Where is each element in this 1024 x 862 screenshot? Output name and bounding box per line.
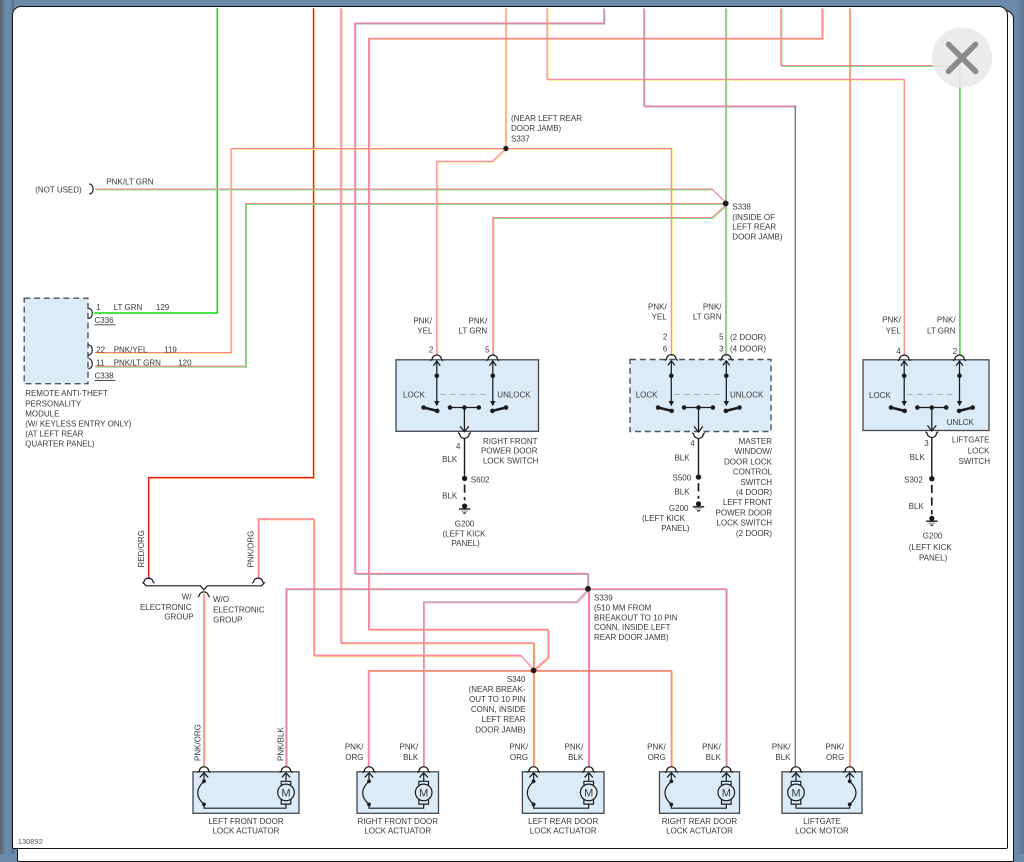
svg-text:BLK: BLK — [706, 753, 722, 762]
svg-text:PNK/BLK: PNK/BLK — [277, 727, 286, 761]
svg-text:C336: C336 — [95, 316, 115, 325]
svg-text:22: 22 — [96, 345, 105, 354]
svg-text:M: M — [281, 787, 290, 799]
svg-text:(2 DOOR): (2 DOOR) — [736, 529, 772, 538]
svg-text:PNK/: PNK/ — [469, 316, 488, 325]
svg-text:LT GRN: LT GRN — [693, 312, 722, 321]
svg-text:PANEL): PANEL) — [451, 539, 480, 548]
svg-text:PNK/YEL: PNK/YEL — [114, 345, 148, 354]
svg-text:REAR DOOR JAMB): REAR DOOR JAMB) — [594, 633, 669, 642]
svg-text:BLK: BLK — [910, 453, 926, 462]
svg-text:6: 6 — [663, 345, 668, 354]
svg-text:POWER DOOR: POWER DOOR — [716, 508, 773, 517]
svg-text:PNK/: PNK/ — [509, 743, 528, 752]
svg-text:S339: S339 — [594, 594, 613, 603]
svg-text:UNLOCK: UNLOCK — [730, 391, 764, 400]
svg-text:4: 4 — [690, 439, 695, 448]
svg-text:BLK: BLK — [442, 455, 458, 464]
svg-text:S340: S340 — [507, 675, 526, 684]
svg-text:PNK/: PNK/ — [565, 743, 584, 752]
svg-text:PNK/: PNK/ — [647, 743, 666, 752]
svg-text:PNK/LT GRN: PNK/LT GRN — [114, 359, 161, 368]
svg-text:PNK/: PNK/ — [400, 743, 419, 752]
svg-text:RIGHT FRONT: RIGHT FRONT — [483, 437, 538, 446]
svg-text:PANEL): PANEL) — [919, 554, 948, 563]
svg-text:ORG: ORG — [648, 753, 666, 762]
svg-text:ORG: ORG — [510, 753, 528, 762]
svg-text:LOCK SWITCH: LOCK SWITCH — [483, 457, 539, 466]
svg-text:BLK: BLK — [403, 753, 419, 762]
svg-text:G200: G200 — [923, 532, 943, 541]
svg-text:PNK/: PNK/ — [826, 743, 845, 752]
svg-text:PANEL): PANEL) — [661, 524, 690, 533]
svg-text:BLK: BLK — [909, 502, 925, 511]
svg-text:M: M — [584, 787, 593, 799]
svg-text:LOCK ACTUATOR: LOCK ACTUATOR — [530, 827, 597, 836]
svg-text:2: 2 — [953, 347, 958, 356]
svg-text:LT GRN: LT GRN — [114, 303, 143, 312]
svg-text:LOCK ACTUATOR: LOCK ACTUATOR — [666, 827, 733, 836]
svg-text:PERSONALITY: PERSONALITY — [25, 399, 82, 408]
svg-text:M: M — [791, 787, 800, 799]
svg-text:(4 DOOR): (4 DOOR) — [736, 488, 772, 497]
svg-text:PNK/: PNK/ — [882, 315, 901, 324]
svg-text:GROUP: GROUP — [213, 616, 242, 625]
svg-text:(AT LEFT REAR: (AT LEFT REAR — [25, 429, 83, 438]
svg-text:C338: C338 — [95, 372, 115, 381]
svg-text:(4 DOOR): (4 DOOR) — [730, 345, 766, 354]
svg-text:OUT TO 10 PIN: OUT TO 10 PIN — [469, 695, 526, 704]
svg-text:PNK/ORG: PNK/ORG — [193, 724, 202, 761]
svg-text:S602: S602 — [471, 475, 490, 484]
svg-text:MASTER: MASTER — [739, 437, 773, 446]
svg-text:RED/ORG: RED/ORG — [137, 530, 146, 567]
svg-text:MODULE: MODULE — [25, 409, 59, 418]
svg-text:G200: G200 — [669, 504, 689, 513]
svg-text:QUARTER PANEL): QUARTER PANEL) — [25, 439, 95, 448]
svg-text:LEFT FRONT DOOR: LEFT FRONT DOOR — [208, 817, 283, 826]
svg-text:LEFT REAR: LEFT REAR — [732, 223, 776, 232]
svg-text:LT GRN: LT GRN — [927, 327, 956, 336]
svg-text:(NOT USED): (NOT USED) — [35, 185, 82, 194]
svg-text:LOCK ACTUATOR: LOCK ACTUATOR — [213, 827, 280, 836]
svg-text:3: 3 — [719, 345, 724, 354]
svg-text:YEL: YEL — [652, 312, 668, 321]
svg-text:S337: S337 — [511, 134, 530, 143]
svg-text:GROUP: GROUP — [164, 613, 193, 622]
svg-text:LEFT FRONT: LEFT FRONT — [723, 498, 772, 507]
svg-text:PNK/: PNK/ — [345, 743, 364, 752]
svg-text:RIGHT FRONT DOOR: RIGHT FRONT DOOR — [357, 817, 438, 826]
svg-text:LIFTGATE: LIFTGATE — [952, 436, 990, 445]
svg-text:YEL: YEL — [417, 326, 433, 335]
svg-text:S302: S302 — [904, 475, 923, 484]
svg-text:LOCK: LOCK — [403, 391, 425, 400]
svg-text:POWER DOOR: POWER DOOR — [481, 447, 538, 456]
svg-text:LIFTGATE: LIFTGATE — [803, 817, 841, 826]
svg-text:YEL: YEL — [886, 327, 902, 336]
svg-text:ELECTRONIC: ELECTRONIC — [140, 603, 192, 612]
svg-text:(LEFT KICK: (LEFT KICK — [909, 543, 953, 552]
svg-text:BLK: BLK — [442, 492, 458, 501]
svg-text:PNK/ORG: PNK/ORG — [247, 531, 256, 568]
svg-text:UNLOCK: UNLOCK — [497, 391, 531, 400]
svg-text:DOOR LOCK: DOOR LOCK — [724, 457, 773, 466]
svg-text:WINDOW/: WINDOW/ — [735, 447, 773, 456]
svg-text:M: M — [722, 787, 731, 799]
svg-text:W/: W/ — [182, 593, 193, 602]
svg-text:BLK: BLK — [775, 753, 791, 762]
svg-text:ORG: ORG — [826, 753, 844, 762]
svg-text:RIGHT REAR DOOR: RIGHT REAR DOOR — [662, 817, 738, 826]
svg-text:120: 120 — [178, 359, 192, 368]
svg-text:(LEFT KICK: (LEFT KICK — [443, 529, 487, 538]
svg-text:119: 119 — [164, 345, 177, 354]
svg-text:W/O: W/O — [213, 595, 229, 604]
svg-text:LOCK: LOCK — [869, 391, 891, 400]
svg-text:(510 MM FROM: (510 MM FROM — [594, 603, 652, 612]
svg-text:DOOR JAMB): DOOR JAMB) — [475, 725, 526, 734]
svg-text:S338: S338 — [732, 202, 751, 211]
svg-text:LOCK MOTOR: LOCK MOTOR — [795, 827, 849, 836]
svg-text:ELECTRONIC: ELECTRONIC — [213, 605, 265, 614]
svg-text:PNK/LT GRN: PNK/LT GRN — [106, 178, 153, 187]
svg-text:BLK: BLK — [674, 488, 690, 497]
svg-text:PNK/: PNK/ — [937, 315, 956, 324]
svg-text:(INSIDE OF: (INSIDE OF — [732, 213, 775, 222]
svg-text:G200: G200 — [455, 520, 475, 529]
svg-text:1: 1 — [96, 303, 101, 312]
svg-text:2: 2 — [429, 345, 434, 354]
svg-text:PNK/: PNK/ — [413, 316, 432, 325]
svg-text:3: 3 — [924, 439, 929, 448]
svg-text:PNK/: PNK/ — [648, 303, 667, 312]
svg-text:M: M — [419, 787, 428, 799]
svg-text:(NEAR LEFT REAR: (NEAR LEFT REAR — [511, 114, 582, 123]
svg-text:PNK/: PNK/ — [703, 303, 722, 312]
svg-text:LEFT REAR DOOR: LEFT REAR DOOR — [528, 817, 598, 826]
svg-text:CONN, INSIDE: CONN, INSIDE — [471, 705, 526, 714]
svg-text:5: 5 — [719, 333, 724, 342]
svg-text:BLK: BLK — [674, 453, 690, 462]
svg-text:4: 4 — [456, 442, 461, 451]
svg-text:129: 129 — [156, 303, 170, 312]
svg-text:PNK/: PNK/ — [702, 743, 721, 752]
svg-text:CONN, INSIDE LEFT: CONN, INSIDE LEFT — [594, 623, 671, 632]
svg-text:2: 2 — [663, 333, 668, 342]
svg-text:LT GRN: LT GRN — [459, 326, 488, 335]
svg-text:ORG: ORG — [345, 753, 363, 762]
svg-text:BLK: BLK — [568, 753, 584, 762]
svg-text:5: 5 — [485, 345, 490, 354]
svg-text:DOOR JAMB): DOOR JAMB) — [511, 124, 562, 133]
svg-text:SWITCH: SWITCH — [740, 478, 772, 487]
svg-text:(LEFT KICK: (LEFT KICK — [642, 514, 686, 523]
svg-text:CONTROL: CONTROL — [733, 468, 773, 477]
svg-text:(W/ KEYLESS ENTRY ONLY): (W/ KEYLESS ENTRY ONLY) — [25, 419, 132, 428]
svg-text:LOCK: LOCK — [968, 447, 990, 456]
svg-text:BREAKOUT TO 10 PIN: BREAKOUT TO 10 PIN — [594, 613, 678, 622]
svg-text:SWITCH: SWITCH — [958, 457, 990, 466]
svg-text:DOOR JAMB): DOOR JAMB) — [732, 232, 783, 241]
svg-text:4: 4 — [896, 347, 901, 356]
svg-text:LEFT REAR: LEFT REAR — [482, 715, 526, 724]
svg-text:LOCK ACTUATOR: LOCK ACTUATOR — [364, 827, 431, 836]
svg-text:S500: S500 — [673, 474, 692, 483]
svg-text:(2 DOOR): (2 DOOR) — [730, 333, 766, 342]
svg-text:11: 11 — [96, 359, 105, 368]
svg-text:REMOTE ANTI-THEFT: REMOTE ANTI-THEFT — [25, 389, 108, 398]
svg-text:PNK/: PNK/ — [772, 743, 791, 752]
svg-text:LOCK: LOCK — [636, 391, 658, 400]
svg-text:130892: 130892 — [18, 837, 43, 846]
svg-text:LOCK SWITCH: LOCK SWITCH — [716, 519, 772, 528]
svg-text:UNLCK: UNLCK — [947, 418, 975, 427]
svg-text:(NEAR BREAK-: (NEAR BREAK- — [469, 685, 526, 694]
